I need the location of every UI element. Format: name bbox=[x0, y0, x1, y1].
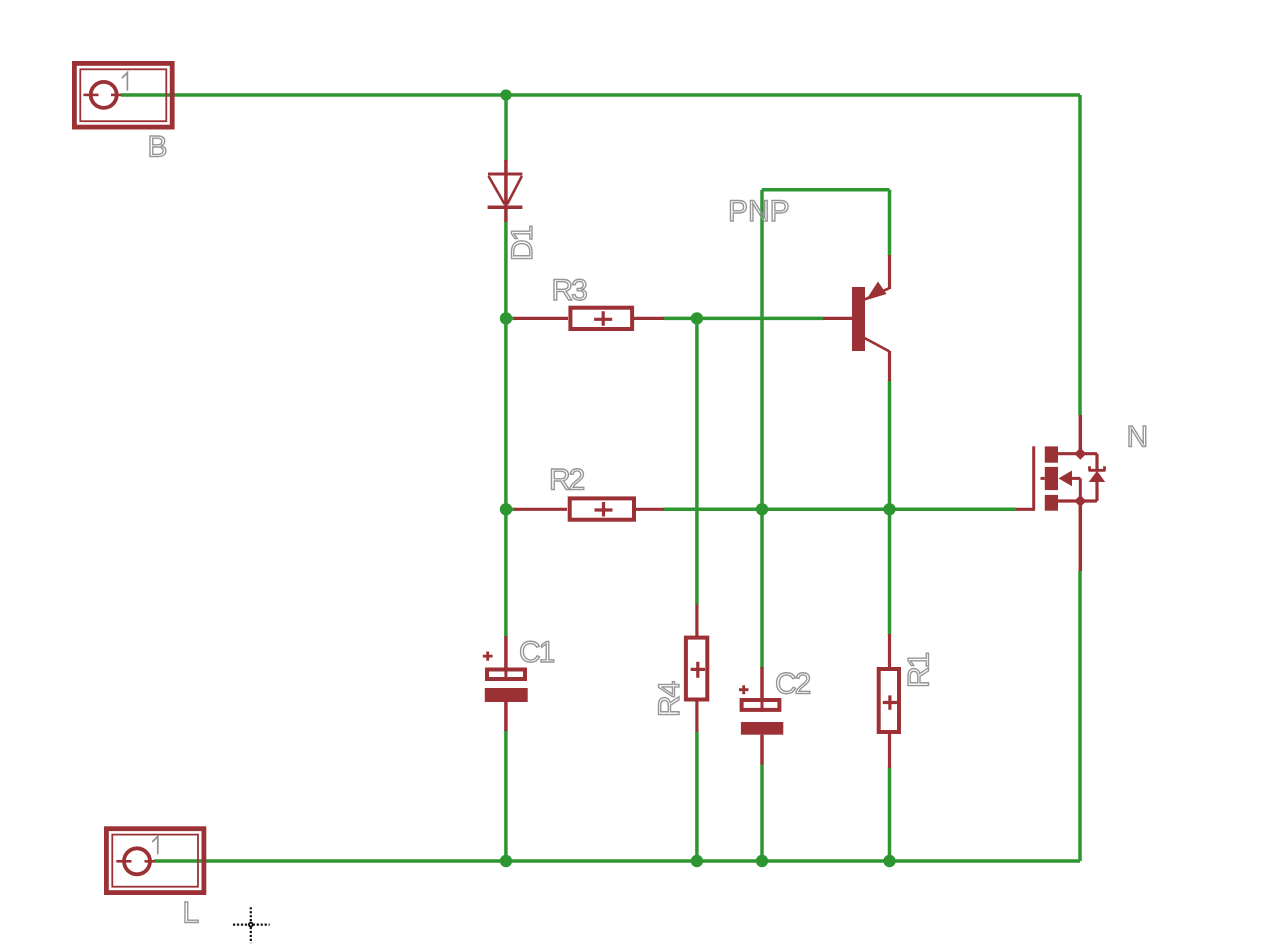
resistor R2 bbox=[514, 498, 664, 519]
connector B pin 1 label bbox=[122, 73, 128, 91]
wire R2 row to MOSFET gate bbox=[664, 508, 1017, 512]
wire bottom rail bbox=[154, 859, 1080, 863]
svg-text:B: B bbox=[148, 131, 168, 164]
node junction (506,509) bbox=[500, 503, 512, 515]
wire PNP collector to R1 bbox=[888, 381, 892, 635]
wire R4 column upper bbox=[695, 318, 699, 605]
wire right vertical upper bbox=[1078, 95, 1082, 415]
svg-text:R4: R4 bbox=[653, 681, 686, 717]
connector B bbox=[74, 63, 172, 127]
resistor R1 (vertical) bbox=[879, 634, 899, 768]
svg-text:C2: C2 bbox=[775, 668, 811, 701]
svg-text:R1: R1 bbox=[903, 652, 936, 688]
svg-text:R2: R2 bbox=[549, 464, 585, 497]
wire PNP emitter vertical bbox=[888, 190, 892, 256]
svg-text:L: L bbox=[183, 897, 200, 930]
diode D1 bbox=[488, 160, 523, 222]
resistor R4 (vertical) bbox=[686, 605, 707, 733]
wire C2 column lower bbox=[760, 764, 764, 862]
wire R3 row left stub bbox=[506, 317, 515, 321]
transistor PNP bbox=[823, 255, 890, 381]
mosfet N bbox=[1016, 415, 1106, 571]
node junction (506,861) bbox=[500, 855, 512, 867]
node junction (762,861) bbox=[756, 855, 768, 867]
wire right vertical lower bbox=[1078, 571, 1082, 861]
svg-text:N: N bbox=[1127, 420, 1149, 453]
node junction (506,318) bbox=[500, 312, 512, 324]
node junction (506,95) bbox=[500, 89, 511, 100]
capacitor C2 (polarized) bbox=[739, 667, 783, 765]
wire R3 row to PNP base bbox=[663, 317, 823, 321]
connector L pin 1 label bbox=[152, 836, 158, 854]
node junction (697,318) bbox=[691, 312, 703, 324]
connector L bbox=[106, 829, 203, 893]
svg-text:D1: D1 bbox=[506, 225, 539, 261]
wire C2 column upper bbox=[760, 190, 764, 668]
wire PNP top horizontal bbox=[762, 188, 890, 192]
node junction (889,861) bbox=[883, 855, 895, 867]
wire R1 bottom to bottom rail bbox=[888, 767, 892, 861]
wire R2 row left stub bbox=[506, 508, 515, 512]
node junction (762,509) bbox=[756, 503, 768, 515]
node junction (889,509) bbox=[883, 503, 895, 515]
node junction (697,861) bbox=[691, 855, 703, 867]
wire R4 column lower bbox=[695, 732, 699, 862]
wire D1 column upper bbox=[504, 95, 508, 161]
capacitor C1 (polarized) bbox=[483, 636, 528, 731]
svg-text:R3: R3 bbox=[552, 274, 588, 307]
resistor R3 bbox=[514, 308, 664, 329]
wire C1 bottom to bottom rail bbox=[504, 730, 508, 861]
svg-text:C1: C1 bbox=[519, 636, 555, 669]
wire D1 column middle (D1 to C1) bbox=[504, 222, 508, 638]
wire top rail B to right bbox=[121, 93, 1080, 97]
svg-text:PNP: PNP bbox=[728, 195, 790, 228]
cursor crosshair bbox=[233, 907, 270, 943]
